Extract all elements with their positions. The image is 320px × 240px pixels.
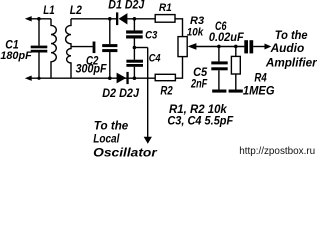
svg-text:C3: C3	[145, 30, 158, 42]
svg-text:10k: 10k	[187, 27, 204, 39]
svg-text:R1: R1	[159, 2, 172, 14]
svg-text:R1, R2 10k: R1, R2 10k	[169, 104, 227, 116]
arrow R3 wiper	[188, 43, 197, 50]
inductor L1	[51, 19, 56, 78]
capacitor C6 plates	[244, 40, 248, 53]
ground bar C5	[212, 90, 226, 93]
node dot bottom rail x=134	[133, 76, 137, 80]
svg-text:Audio: Audio	[270, 43, 305, 55]
wire top-left antenna rail	[29, 18, 51, 20]
wire bottom rail	[29, 77, 155, 79]
wire C5 top lead	[218, 46, 220, 61]
wire C6 to audio arrow	[253, 46, 265, 48]
resistor R2 box	[155, 74, 175, 80]
node dot bottom rail C1	[37, 77, 40, 80]
wire C5 bottom lead	[218, 70, 220, 89]
svg-text:R2: R2	[160, 86, 173, 98]
svg-text:C5: C5	[193, 67, 208, 79]
svg-text:To the: To the	[94, 120, 129, 132]
node dot top C1 branch	[37, 17, 41, 21]
wire R1 to R3 corner	[175, 19, 183, 37]
wire C2 tap from L2	[71, 46, 93, 48]
wire R4 top lead	[235, 46, 237, 56]
svg-text:C4: C4	[149, 53, 161, 65]
wire C4 to bottom rail	[133, 67, 135, 78]
node dot bottom rail x=110	[108, 76, 112, 80]
node dot wiper R4 branch	[234, 45, 238, 49]
node dot D1 anode x=110	[108, 17, 112, 21]
svg-text:300pF: 300pF	[76, 63, 108, 75]
resistor R3 box (potentiometer)	[178, 37, 187, 57]
ground bar R4	[229, 90, 243, 93]
svg-text:1MEG: 1MEG	[243, 86, 275, 98]
arrow antenna top-left	[25, 16, 32, 21]
capacitor C4 plates	[126, 60, 143, 63]
wire C1 branch vertical	[38, 19, 40, 46]
capacitor C2 stacked plates on x=110	[102, 44, 117, 47]
svg-text:R3: R3	[190, 15, 204, 27]
node dot D1 cathode x=134	[133, 17, 137, 21]
svg-text:R4: R4	[254, 72, 267, 84]
resistor R4 box	[231, 56, 240, 74]
capacitor C3 plates	[126, 30, 143, 33]
wire vertical branch x=110 upper	[109, 19, 111, 44]
wire R3 wiper to C6	[195, 46, 244, 48]
inductor L2	[66, 19, 71, 78]
wire vertical branch x=110 lower	[109, 52, 111, 78]
arrow bottom-left	[25, 76, 32, 81]
arrow to local oscillator	[144, 137, 152, 144]
capacitor C5 plates	[211, 61, 227, 64]
wire R4 bottom lead	[235, 74, 237, 90]
svg-text:2nF: 2nF	[190, 78, 208, 90]
capacitor C1 plates	[31, 46, 48, 49]
node dot wiper C5 branch	[217, 45, 221, 49]
arrow to audio amplifier	[265, 44, 272, 50]
wire LO branch horizontal	[134, 47, 147, 49]
svg-text:180pF: 180pF	[0, 50, 32, 62]
svg-text:http://zpostbox.ru: http://zpostbox.ru	[239, 146, 315, 157]
wire D1 cathode to R1	[127, 18, 155, 20]
svg-text:C3, C4 5.5pF: C3, C4 5.5pF	[167, 116, 234, 128]
resistor R1 box	[155, 15, 175, 23]
svg-text:Oscillator: Oscillator	[93, 145, 158, 159]
svg-text:D1 D2J: D1 D2J	[108, 0, 145, 11]
svg-text:L1: L1	[43, 5, 54, 17]
wire x=134 top to C3	[133, 19, 135, 31]
wire R3 bottom to R2	[175, 57, 182, 79]
svg-text:Local: Local	[93, 133, 120, 145]
diode D2	[117, 73, 127, 84]
svg-text:Amplifier: Amplifier	[265, 57, 317, 69]
wire top-mid rail L2 to D1	[71, 18, 117, 20]
wire C3 to C4	[133, 39, 135, 60]
svg-text:L2: L2	[70, 5, 83, 17]
svg-text:0.02uF: 0.02uF	[209, 30, 244, 44]
wire LO branch vertical	[147, 48, 149, 138]
wire C1 to bottom rail	[38, 53, 40, 79]
node dot C3-C4 midpoint	[133, 46, 137, 50]
svg-text:To the: To the	[275, 30, 308, 42]
capacitor C2 left plate	[93, 42, 96, 54]
diode D1	[116, 12, 118, 25]
svg-text:D2 D2J: D2 D2J	[102, 88, 139, 100]
